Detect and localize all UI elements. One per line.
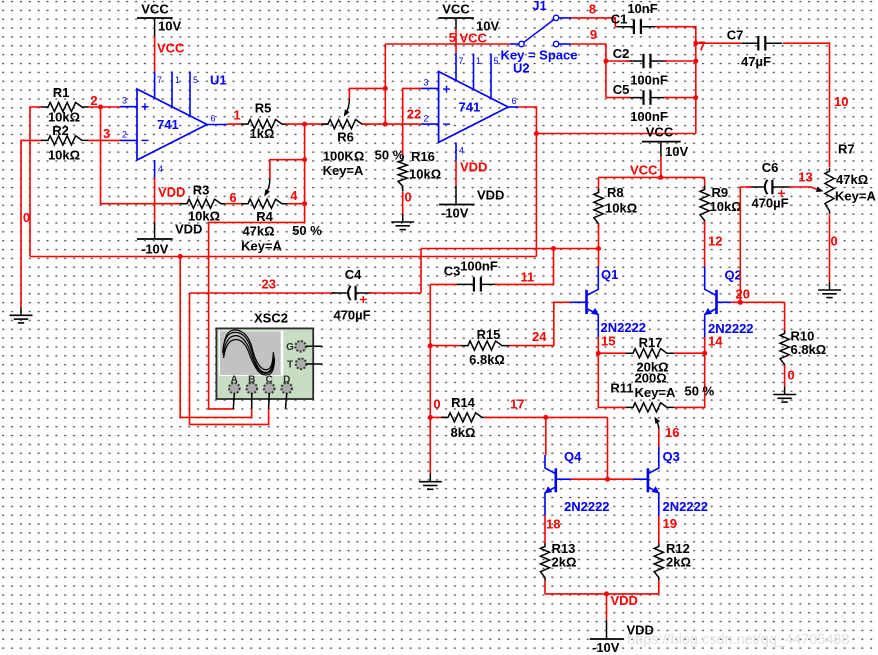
svg-text:-10V: -10V [592,640,620,655]
junction net 15 [596,351,601,356]
svg-text:4: 4 [290,188,298,203]
svg-text:G: G [286,342,294,353]
value R8 10k [605,201,637,216]
wire net11 to C4 [420,249,422,294]
value Q2 2N2222 [708,321,754,336]
net 17 [510,397,524,412]
pin 1 label (U1) [175,75,180,85]
C6 plus mark [778,190,785,197]
value Q4 2N2222 [564,499,610,514]
R6 wiper arrowhead [344,109,350,116]
label C1 [611,12,628,27]
wire rail to R9 [704,177,706,189]
svg-text:3: 3 [122,96,127,106]
power VDD symbol (U1) [137,222,202,257]
resistor R3 [180,199,228,208]
svg-text:Key = Space: Key = Space [501,48,578,63]
label R1 [53,85,70,100]
svg-text:6: 6 [229,190,236,205]
capacitor C7 [741,36,782,51]
capacitor C1 [617,19,658,34]
svg-text:100nF: 100nF [630,109,668,124]
net 2 [90,93,97,108]
wire C3 to net11 [494,249,553,285]
wire net8 [571,18,618,27]
wire net5 vertical [384,44,386,124]
R11 wiper arrow [656,420,659,429]
wire Q2 base to node20 [731,301,784,303]
resistor R9 [700,186,709,225]
svg-text:100KΩ: 100KΩ [323,149,365,164]
svg-text:20: 20 [736,287,750,302]
svg-text:12: 12 [708,234,722,249]
svg-text:R7: R7 [838,142,855,157]
junction VCC rail [658,175,663,180]
value R6 100K [323,149,365,164]
switch J1 [519,15,571,47]
svg-text:2: 2 [424,113,429,123]
svg-text:0: 0 [405,190,412,205]
value R13 2k [552,555,577,570]
net 15 [601,334,615,349]
resistor R15 [461,341,509,350]
wire C2 to net7 [664,60,696,62]
svg-text:0: 0 [788,368,795,383]
svg-text:50 %: 50 % [292,223,322,238]
net 22 [407,107,421,122]
svg-text:XSC2: XSC2 [254,311,288,326]
svg-text:-10V: -10V [441,206,469,221]
power VCC symbol (mid) [642,125,688,160]
svg-text:Q4: Q4 [564,449,582,464]
wire Q4 emitter to R13 [544,516,546,545]
power VDD symbol (U2) [439,186,505,221]
net 0 (R10) [788,368,795,383]
wire C3 left feed [430,283,458,285]
svg-text:7: 7 [699,39,706,54]
wire rail to R8 [598,177,600,192]
svg-text:2kΩ: 2kΩ [552,555,577,570]
value C7 47uF [741,54,771,69]
resistor R10 [780,331,789,368]
svg-text:1: 1 [476,56,481,66]
value R17 20k [636,360,668,375]
label R6 [337,130,354,145]
wire net9 to C5 [606,97,630,99]
net 20 [736,287,750,302]
svg-text:U2: U2 [513,61,530,76]
wire VDD stub (bottom) [606,594,608,620]
capacitor C3 [457,277,498,292]
pin 3 label (U1) [122,96,127,106]
junction net11-C3 [551,246,556,251]
svg-text:VDD: VDD [158,185,185,200]
svg-text:4: 4 [459,146,464,156]
svg-text:14: 14 [708,334,723,349]
wire C5 to net7 [664,97,696,99]
svg-text:3: 3 [103,126,110,141]
wire R4 wiper feed [270,160,305,179]
value Q1 2N2222 [601,320,647,335]
label C5 [613,82,630,97]
svg-text:7: 7 [157,75,162,85]
C4 plus mark [360,296,367,303]
wire R5 to node4 [286,123,305,125]
svg-text:5: 5 [449,30,456,45]
svg-text:1: 1 [175,75,180,85]
svg-text:8: 8 [589,2,596,17]
wire R6 to net22 [362,123,421,125]
label R17 [639,335,663,350]
svg-text:J1: J1 [532,0,546,13]
svg-text:VDD: VDD [477,188,504,203]
label R12 [666,541,690,556]
wire R2 to U1 pin2 [88,139,120,141]
wire R14 left [430,416,446,418]
svg-text:VCC: VCC [630,163,658,178]
pin 5 label (U2) [494,56,499,66]
net 8 [589,2,596,17]
net 23 [262,277,276,292]
net 4 [290,188,298,203]
ground (R14) [419,474,442,490]
value R10 6.8k [791,342,827,357]
net 0 (R16) [405,190,412,205]
capacitor C2 [627,54,668,68]
wire net23 horizontal [190,292,336,294]
junction base node [605,477,610,482]
svg-text:R1: R1 [53,85,70,100]
svg-text:R2: R2 [52,123,69,138]
svg-text:VCC: VCC [646,125,674,140]
net 9 [590,27,597,42]
net 16 [665,425,679,440]
svg-text:VCC: VCC [460,31,488,46]
value R2 10k [48,148,80,163]
wire Q3 base [633,478,648,480]
svg-text:0: 0 [433,397,440,412]
wire C7 to net10 [783,43,830,167]
svg-text:R3: R3 [193,183,210,198]
capacitor C6 [748,180,789,194]
pin 7 label (U2) [459,56,464,66]
ground (R16) [391,214,414,230]
svg-text:C4: C4 [345,267,362,282]
wire net5 horizontal [385,43,510,45]
wire R8 to Q1 collector [598,224,600,267]
svg-text:-10V: -10V [141,242,169,257]
svg-text:0: 0 [831,234,838,249]
svg-text:50 %: 50 % [685,384,715,399]
ground (R2) [10,307,33,323]
wire net23 to scope C [190,293,269,424]
wire R15 to Q1 base (net24) [509,302,570,345]
svg-text:Key=A: Key=A [635,385,676,400]
resistor R13 [540,544,549,581]
svg-text:470µF: 470µF [333,308,370,323]
svg-text:Key=A: Key=A [835,189,876,204]
net 11 [521,270,535,285]
wire C6 left to node20 [740,187,752,302]
label R9 [712,185,729,200]
pin 2 label (U2) [424,113,429,123]
wire node2 to R3 [101,107,184,204]
svg-text:17: 17 [510,397,524,412]
svg-text:2: 2 [122,129,127,139]
junction net 14 [702,351,707,356]
svg-text:VCC: VCC [442,2,470,17]
value C5 100nF [630,109,668,124]
svg-text:1: 1 [233,108,240,123]
wire U2 pin3 feed [403,88,421,155]
value R15 6.8k [469,352,505,367]
wire C1 to net7 column [655,27,696,134]
power VDD symbol (bottom) [590,620,654,655]
net 0 (R14) [433,397,440,412]
R6 wiper arrow [345,99,349,114]
svg-text:47kΩ: 47kΩ [836,172,868,187]
transistor Q3 [648,447,659,516]
svg-text:0: 0 [23,210,30,225]
svg-text:10kΩ: 10kΩ [605,201,637,216]
wire net 0 to R2 [21,140,42,307]
power VCC symbol (U2) [438,2,499,34]
svg-text:R8: R8 [607,185,624,200]
wire R3 to R4 (net 6) [225,203,244,205]
junction node 2 [98,105,103,110]
svg-text:VCC: VCC [141,2,169,17]
net 19 [663,516,677,531]
power VCC symbol (U1) [137,2,181,37]
pin 7 label (U1) [157,75,162,85]
svg-text:18: 18 [546,517,560,532]
label U1 [210,73,227,88]
junction R15 left [428,343,433,348]
svg-text:10kΩ: 10kΩ [710,199,742,214]
svg-text:6.8kΩ: 6.8kΩ [469,352,505,367]
value C4 470uF [333,308,370,323]
resistor R5 [241,120,289,129]
junction U2out-caps [534,131,539,136]
pin 6 label (U1) [211,114,216,124]
svg-text:10V: 10V [665,144,688,159]
label R13 [552,541,576,556]
op-amp U1 [120,71,227,177]
ground (R10) [773,387,796,403]
wire R1 to U1 pin3 [88,106,120,108]
R11 percent [685,384,715,399]
resistor R14 [441,413,489,422]
wire U2 output [518,107,536,257]
R6 percent [375,148,405,163]
pin 1 label (U2) [476,56,481,66]
svg-text:5: 5 [494,56,499,66]
svg-text:10kΩ: 10kΩ [409,167,441,182]
label R2 [52,123,69,138]
transistor Q2 [704,267,731,338]
svg-text:Key=A: Key=A [323,163,364,178]
svg-text:R5: R5 [255,101,272,116]
value C3 100nF [460,259,498,274]
svg-text:16: 16 [665,425,679,440]
transistor Q1 [570,267,599,338]
label R7 [838,142,855,157]
value R7 47k [836,172,868,187]
svg-text:VDD: VDD [175,222,202,237]
svg-text:7: 7 [459,56,464,66]
svg-text:200Ω: 200Ω [635,371,667,386]
wire node4 vertical [209,124,305,409]
R4 wiper arrow [266,179,270,194]
wire R14 to node17 [484,416,608,418]
label R3 [193,183,210,198]
svg-text:C6: C6 [762,160,779,175]
junction node4 top [302,122,307,127]
junction net11-Q1c [596,246,601,251]
wire Q3 emitter to R12 [658,516,660,545]
wire R7 to ground [829,215,831,283]
svg-text:VDD: VDD [611,593,638,608]
wire R11 to net14 [674,353,705,407]
svg-text:10: 10 [834,94,848,109]
R4 percent [292,223,322,238]
svg-text:24: 24 [532,329,547,344]
value R4 47k [242,224,274,239]
resistor R8 [594,189,603,228]
svg-text:R17: R17 [639,335,663,350]
label VDD net (bottom) [611,593,638,608]
junction R14 left [428,415,433,420]
pin 3 label (U2) [424,78,429,88]
svg-text:15: 15 [601,334,615,349]
capacitor C5 [627,90,668,105]
wire net7 to C7 [696,42,741,44]
potentiometer R6 [321,120,369,129]
label R4 [256,209,273,224]
svg-text:470µF: 470µF [751,196,788,211]
pin 6 label (U2) [512,96,517,106]
label R10 [791,329,815,344]
resistor R12 [654,544,663,581]
label R5 [255,101,272,116]
wire node20 to R10 [784,302,786,333]
label C3 [444,264,461,279]
svg-text:2N2222: 2N2222 [564,499,610,514]
svg-text:10V: 10V [158,19,181,34]
wire Q2 emitter to R17 [704,337,706,353]
wire R16 to ground [402,192,404,215]
junction net5-wiper [383,86,388,91]
wire net9 [571,44,606,98]
watermark [627,632,850,648]
svg-text:3: 3 [424,78,429,88]
svg-text:R15: R15 [477,327,501,342]
junction net9-C2 [603,59,608,64]
svg-text:C1: C1 [611,12,628,27]
svg-text:6.8kΩ: 6.8kΩ [791,342,827,357]
wire U2out long horizontal [30,256,536,258]
wire net9 to C2 [606,60,630,62]
wire C4 to net11 [369,292,421,294]
value R3 10k [188,209,220,224]
svg-text:5: 5 [193,75,198,85]
resistor R16 [398,155,407,191]
svg-text:C7: C7 [727,28,744,43]
wire R4 to node 4 [287,203,305,205]
label VDD net (U2) [460,160,487,175]
svg-text:2N2222: 2N2222 [663,499,709,514]
wire R9 to Q2 collector [704,221,706,267]
wire R17 to net14 [674,352,705,354]
svg-text:10nF: 10nF [627,1,657,16]
label Q3 [663,449,680,464]
value R1 10k [48,110,80,125]
wire VCC stub [660,157,662,178]
junction node 20 [738,300,743,305]
svg-text:https://blog.csdn.net/qq_44705: https://blog.csdn.net/qq_44705488 [627,632,850,648]
value C6 470uF [751,196,788,211]
wire U1 out net1 [227,123,244,125]
resistor R2 [41,136,89,145]
label R16 [411,149,435,164]
wire R11 wiper to Q3 collector [658,429,660,447]
wire net15 to R17 [598,352,626,354]
svg-text:1kΩ: 1kΩ [250,126,275,141]
label Q4 [564,449,582,464]
R6 key [323,163,364,178]
svg-text:6: 6 [512,96,517,106]
svg-text:Key=A: Key=A [241,239,282,254]
label R14 [451,395,476,410]
potentiometer R4 [241,199,289,208]
net 5 [449,30,456,45]
label J1 [532,0,546,13]
svg-text:Q3: Q3 [663,449,680,464]
R7 key [835,189,876,204]
svg-text:R9: R9 [712,185,729,200]
svg-text:47kΩ: 47kΩ [242,224,274,239]
junction scope-B branch [178,254,183,259]
wire R12 to VDD rail [658,580,660,594]
label C6 [762,160,779,175]
svg-text:Q1: Q1 [601,267,618,282]
junction node 17 [543,415,548,420]
label VCC net (U1) [157,41,185,56]
wire VCC rail [599,176,705,178]
potentiometer R7 [825,168,834,214]
value R14 8k [451,425,476,440]
label VCC net (U2) [460,31,488,46]
value R12 2k [666,555,691,570]
value R11 200 [635,371,667,386]
svg-text:22: 22 [407,107,421,122]
wire U1 pin4 to VDD [154,178,156,223]
svg-text:6: 6 [211,114,216,124]
net 10 [834,94,848,109]
wire C3col down [429,284,431,474]
svg-text:100nF: 100nF [630,73,668,88]
svg-text:C3: C3 [444,264,461,279]
svg-text:100nF: 100nF [460,259,498,274]
value R5 1k [250,126,275,141]
net 12 [708,234,722,249]
wire net11 horizontal [421,248,599,250]
svg-text:10kΩ: 10kΩ [48,148,80,163]
net 14 [708,334,723,349]
wire R13 to VDD rail [544,580,546,594]
svg-text:R16: R16 [411,149,435,164]
svg-text:9: 9 [590,27,597,42]
